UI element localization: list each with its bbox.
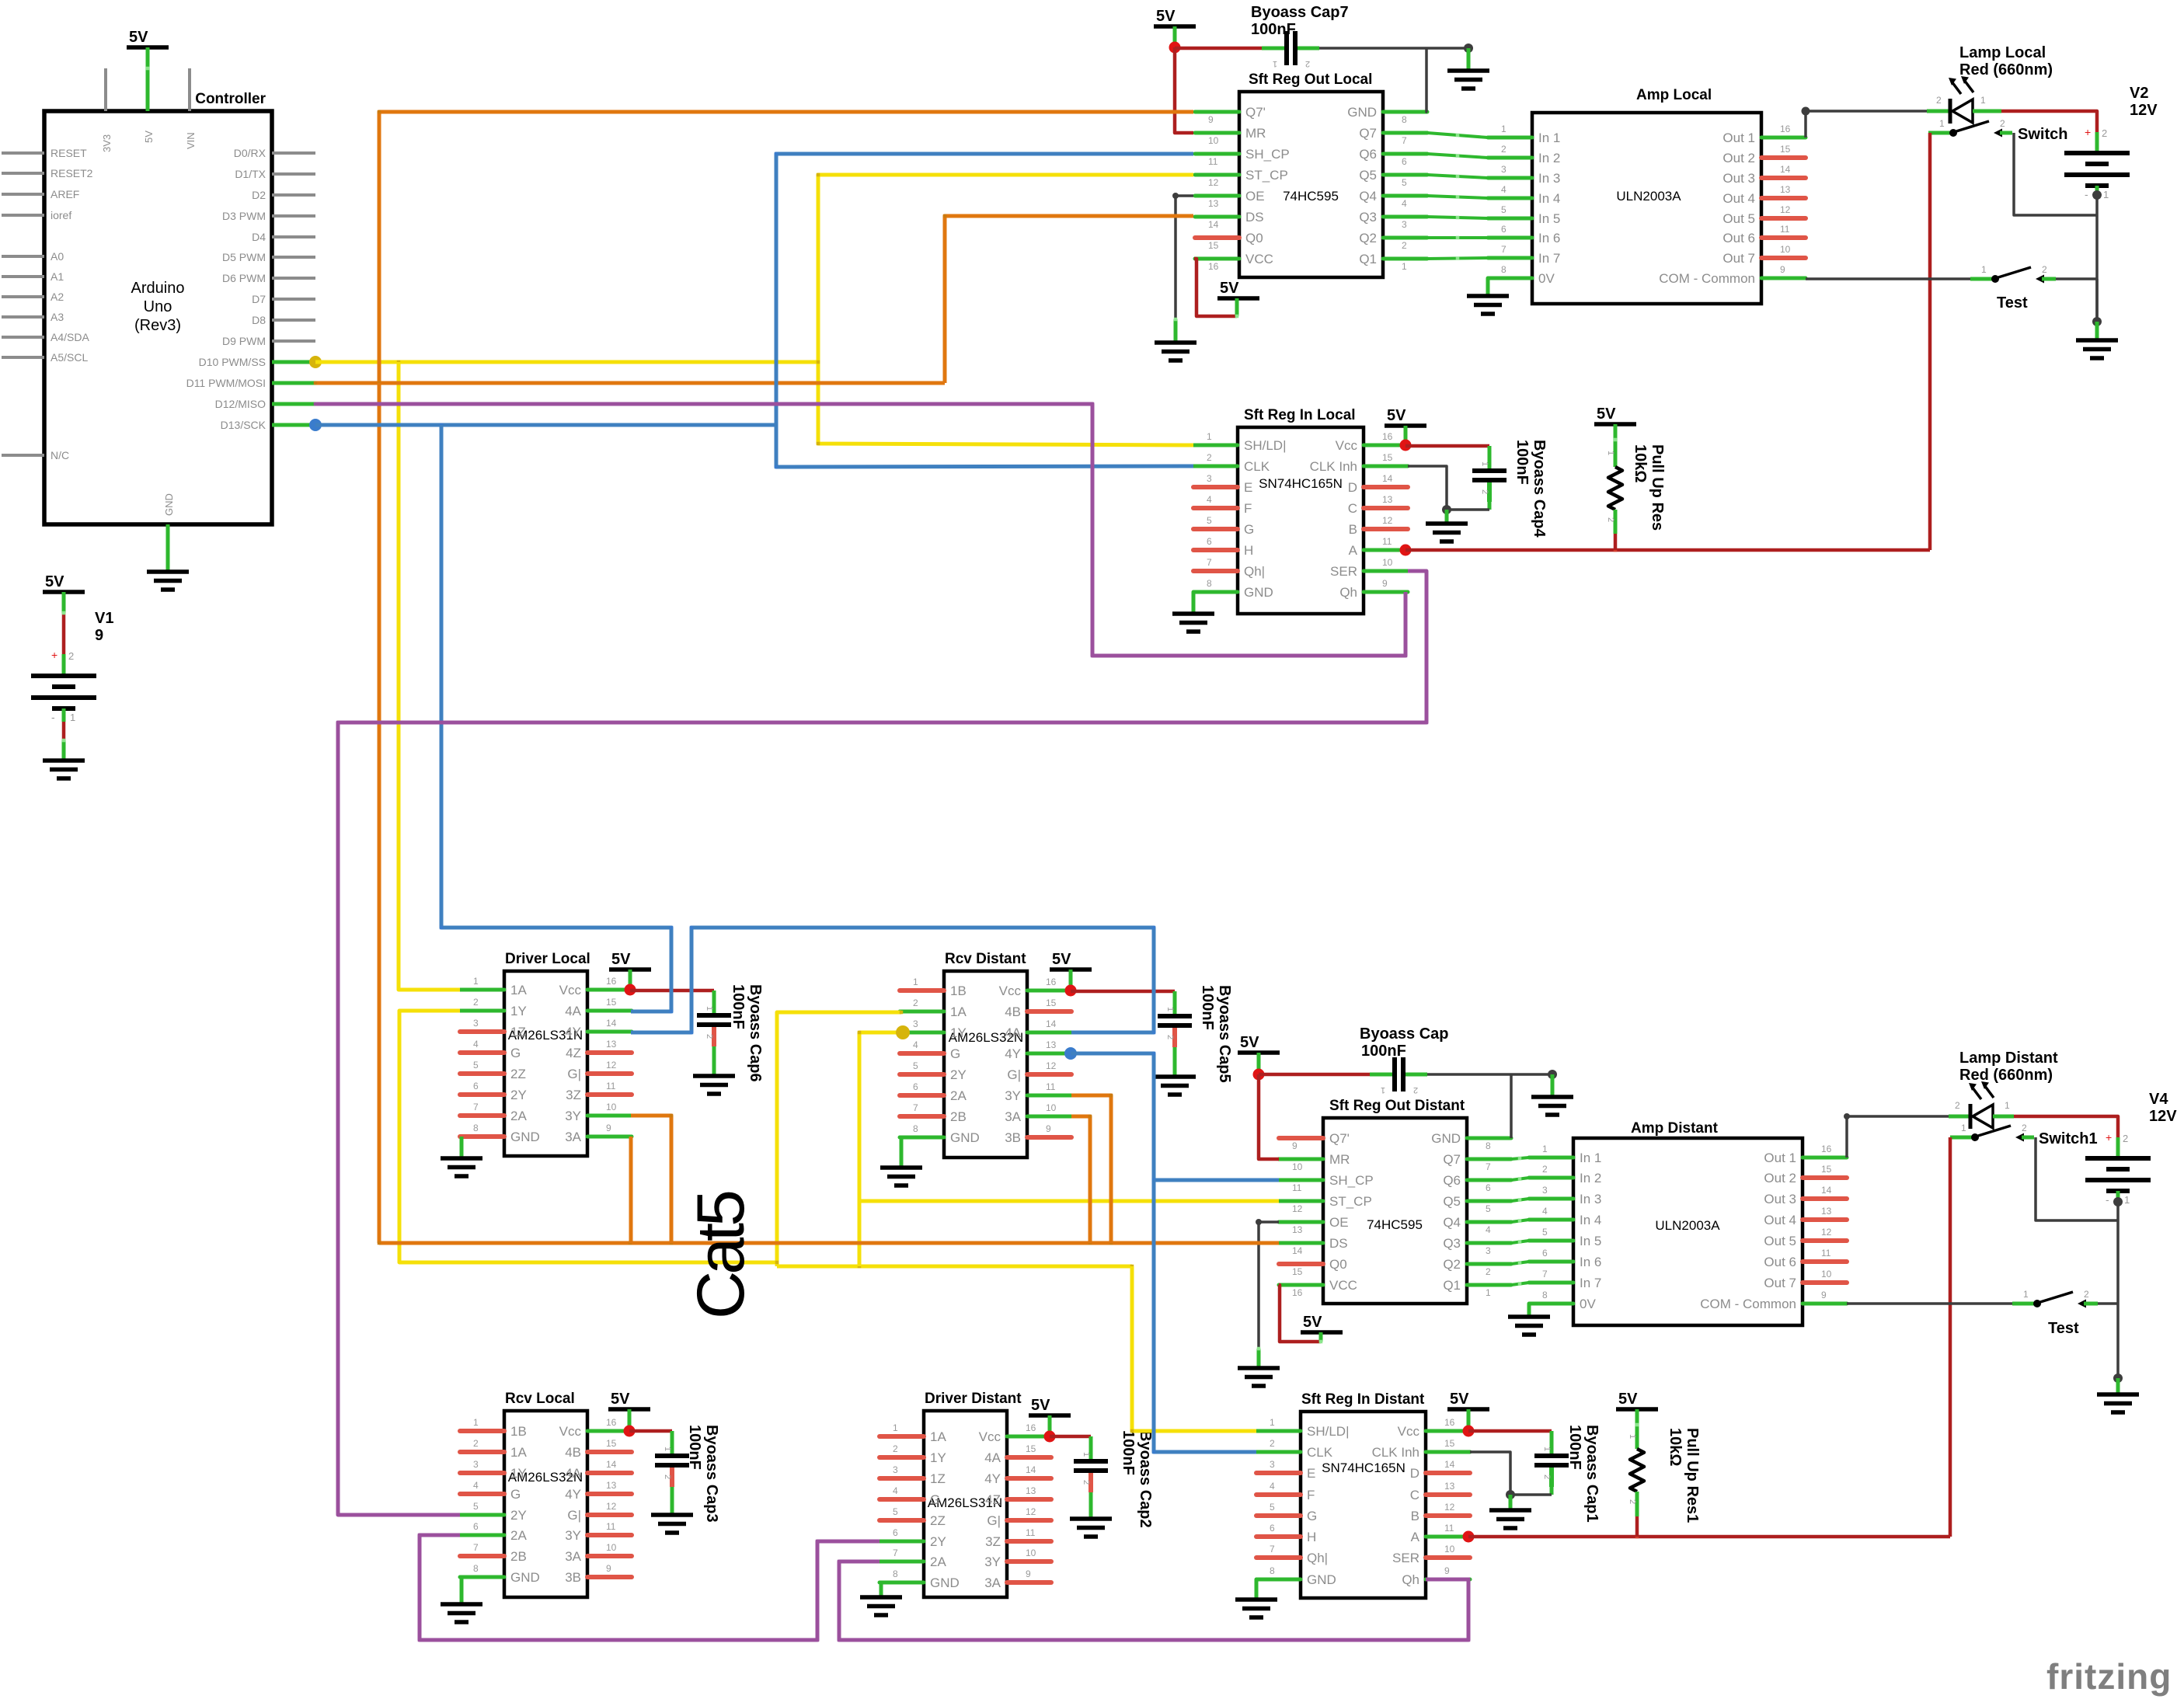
wire junction to ground (cap4) <box>1445 510 1449 524</box>
svg-text:Amp Local: Amp Local <box>1636 87 1712 103</box>
node rcv 1Y dot <box>896 1025 910 1039</box>
svg-text:16: 16 <box>1444 1417 1455 1428</box>
power 5V flag (595 distant VCC) <box>1301 1314 1343 1332</box>
svg-text:GND: GND <box>1347 105 1377 120</box>
svg-text:4A: 4A <box>984 1450 1001 1465</box>
wire VCC to 5V (595 local) <box>1194 259 1237 316</box>
wire blue to CLK local <box>776 425 1193 467</box>
svg-text:2Y: 2Y <box>930 1534 946 1549</box>
svg-text:Vcc: Vcc <box>979 1429 1001 1444</box>
ground (OE 595 local) <box>1155 343 1196 360</box>
svg-text:1: 1 <box>1480 461 1489 466</box>
svg-text:100nF: 100nF <box>730 984 747 1029</box>
capacitor C2 (Byoass Cap2 100nF) <box>1074 1440 1108 1492</box>
svg-text:3B: 3B <box>565 1570 581 1585</box>
svg-text:Sft Reg In Local: Sft Reg In Local <box>1244 407 1356 423</box>
svg-text:11: 11 <box>1026 1527 1036 1538</box>
pin V2 pin2 <box>2095 132 2099 153</box>
svg-text:Switch: Switch <box>2018 126 2067 143</box>
svg-text:Arduino: Arduino <box>131 280 185 297</box>
wire orange rcv 3A drop <box>1071 1116 1090 1243</box>
wire Vcc to cap6 <box>630 989 714 993</box>
svg-text:1: 1 <box>1273 59 1277 68</box>
svg-text:9: 9 <box>1208 114 1214 125</box>
svg-text:G|: G| <box>987 1513 1001 1528</box>
svg-text:In 5: In 5 <box>1580 1234 1601 1248</box>
svg-text:Out 2: Out 2 <box>1722 151 1755 165</box>
pin pullup 1 <box>1614 424 1618 467</box>
svg-text:4: 4 <box>1270 1481 1275 1492</box>
wire lamp to V4 + <box>2014 1116 2118 1137</box>
capacitor C6 (Byoass Cap6 100nF) <box>697 994 731 1046</box>
svg-text:2: 2 <box>1480 489 1489 494</box>
svg-text:2: 2 <box>1270 1438 1275 1449</box>
pin switch 1 <box>1928 131 1950 135</box>
wire gnd stub (cap7) <box>1467 48 1471 71</box>
svg-text:D: D <box>1410 1466 1419 1481</box>
IC Amp Local (ULN2003A) <box>1488 87 1806 304</box>
svg-text:Qh|: Qh| <box>1244 564 1265 579</box>
svg-text:Out 1: Out 1 <box>1764 1151 1796 1165</box>
node gnd junction (cap distant) <box>1548 1070 1557 1079</box>
wire 5V drop (595 distant) <box>1257 1053 1261 1074</box>
svg-text:14: 14 <box>1026 1464 1036 1475</box>
wire purple driver distant 2A to Qh distant <box>839 1561 1468 1640</box>
svg-text:Lamp Local: Lamp Local <box>1959 44 2046 61</box>
wire switch to V2 - <box>2014 133 2097 215</box>
wire blue to driver 4A <box>441 425 671 1011</box>
svg-text:OE: OE <box>1245 189 1265 204</box>
svg-text:100nF: 100nF <box>1513 440 1531 485</box>
svg-text:CLK Inh: CLK Inh <box>1310 459 1357 474</box>
wire Q3 to In 5 (distant) <box>1511 1241 1529 1243</box>
svg-text:ULN2003A: ULN2003A <box>1655 1218 1720 1233</box>
svg-text:Byoass Cap: Byoass Cap <box>1360 1025 1449 1043</box>
svg-text:Vcc: Vcc <box>1336 438 1358 453</box>
svg-text:Out 1: Out 1 <box>1722 131 1755 145</box>
svg-text:100nF: 100nF <box>1361 1043 1406 1060</box>
wire pullup to A net <box>1614 534 1618 550</box>
svg-text:10: 10 <box>1444 1544 1455 1555</box>
ground (0V Amp Distant) <box>1508 1317 1550 1335</box>
svg-text:Q0: Q0 <box>1245 231 1263 245</box>
svg-text:6: 6 <box>473 1521 479 1532</box>
wire cap7 to ground net <box>1319 47 1468 50</box>
svg-text:2: 2 <box>913 997 918 1008</box>
svg-text:13: 13 <box>1821 1206 1832 1217</box>
svg-text:G: G <box>1244 522 1254 537</box>
svg-text:10: 10 <box>1026 1548 1036 1558</box>
wire V4 - down <box>2116 1202 2120 1304</box>
svg-text:5V: 5V <box>1450 1391 1469 1408</box>
power 5V flag (595 local) <box>1154 8 1196 26</box>
svg-text:10kΩ: 10kΩ <box>1667 1428 1684 1466</box>
wire VCC to 5V (595 distant) <box>1279 1285 1321 1342</box>
svg-text:5V: 5V <box>1156 8 1176 25</box>
svg-text:13: 13 <box>606 1039 617 1050</box>
svg-text:2: 2 <box>1955 1100 1960 1111</box>
wire Q4 to In 4 (distant) <box>1511 1220 1529 1222</box>
svg-text:14: 14 <box>1292 1245 1303 1256</box>
wire yellow riser to rcv 1A <box>777 1012 901 1266</box>
wire cap to ground net (distant) <box>1427 1073 1552 1076</box>
svg-text:D5 PWM: D5 PWM <box>222 251 266 263</box>
wire switch1-pin1 to A net (red vertical) <box>1928 133 1932 550</box>
power 5V flag (rcv distant) <box>1050 951 1092 970</box>
svg-text:C: C <box>1348 501 1357 516</box>
wire DRVL GND to ground <box>460 1137 464 1158</box>
pin V4 pin1 <box>2116 1191 2120 1202</box>
svg-text:D2: D2 <box>252 189 266 201</box>
svg-text:GND: GND <box>163 493 175 516</box>
svg-text:5V: 5V <box>1618 1391 1638 1408</box>
svg-text:4A: 4A <box>1005 1025 1021 1040</box>
svg-text:2: 2 <box>2022 1123 2027 1133</box>
svg-text:In 1: In 1 <box>1538 131 1560 145</box>
svg-text:11: 11 <box>1382 536 1392 547</box>
svg-text:3: 3 <box>1542 1185 1548 1196</box>
svg-text:11: 11 <box>1780 224 1790 235</box>
wire purple rcv local 2A to driver distant 2Y <box>420 1535 880 1640</box>
svg-text:G: G <box>510 1046 521 1060</box>
svg-text:2: 2 <box>1165 1035 1175 1039</box>
svg-text:16: 16 <box>1208 261 1219 272</box>
svg-text:1Y: 1Y <box>510 1466 527 1481</box>
svg-text:5V: 5V <box>611 951 631 968</box>
svg-text:Q2: Q2 <box>1359 231 1377 245</box>
svg-text:15: 15 <box>1046 997 1057 1008</box>
svg-text:Controller: Controller <box>195 91 266 107</box>
svg-text:MR: MR <box>1245 126 1266 141</box>
pin test distant 2 <box>2084 1302 2098 1306</box>
svg-text:16: 16 <box>1821 1144 1832 1154</box>
ground (cap7) <box>1447 71 1489 89</box>
svg-text:DS: DS <box>1245 210 1264 225</box>
svg-text:2Y: 2Y <box>510 1088 527 1102</box>
svg-text:1: 1 <box>1486 1287 1491 1298</box>
svg-text:10: 10 <box>1821 1269 1832 1279</box>
pin V2 pin1 <box>2095 186 2099 195</box>
svg-text:Lamp Distant: Lamp Distant <box>1959 1050 2058 1067</box>
ground (V1) <box>43 761 85 778</box>
wire OE to ground (595 distant) <box>1259 1222 1279 1349</box>
wire yellow to ST_CP distant <box>859 1199 1279 1203</box>
wire 165D GND to ground <box>1255 1579 1259 1600</box>
svg-text:D4: D4 <box>252 231 266 243</box>
svg-text:1: 1 <box>1628 1434 1637 1439</box>
svg-text:1: 1 <box>473 976 479 987</box>
svg-text:11: 11 <box>1046 1081 1056 1092</box>
capacitor C3 (Byoass Cap3 100nF) <box>655 1434 689 1487</box>
wire Q5 to In 3 (distant) <box>1511 1199 1529 1201</box>
wire switch1-pin1 to A net (red vertical distant) <box>1949 1137 1952 1537</box>
wire V1 + to 5V <box>62 592 66 613</box>
svg-text:Cat5: Cat5 <box>684 1189 758 1319</box>
svg-text:4: 4 <box>1207 494 1212 505</box>
svg-text:7: 7 <box>473 1102 479 1112</box>
svg-text:1: 1 <box>1270 1417 1275 1428</box>
svg-text:In 3: In 3 <box>1580 1192 1601 1206</box>
svg-text:9: 9 <box>1444 1565 1450 1576</box>
svg-text:7: 7 <box>1270 1544 1275 1555</box>
wire OE to ground (595 local) <box>1176 196 1193 319</box>
node A junction (165 distant) <box>1463 1531 1475 1543</box>
svg-text:10: 10 <box>1382 557 1393 568</box>
svg-text:2: 2 <box>1305 59 1310 68</box>
svg-text:-: - <box>2085 188 2088 200</box>
svg-text:5: 5 <box>1402 177 1407 188</box>
svg-text:10kΩ: 10kΩ <box>1632 444 1649 482</box>
svg-text:H: H <box>1307 1530 1316 1544</box>
svg-text:G|: G| <box>1007 1067 1021 1082</box>
svg-text:0V: 0V <box>1538 271 1555 286</box>
svg-text:2: 2 <box>2084 1289 2089 1300</box>
svg-text:7: 7 <box>1486 1161 1491 1172</box>
wire 5V to Vcc (driver distant) <box>1048 1415 1052 1436</box>
svg-text:In 6: In 6 <box>1538 231 1560 245</box>
node V4 - node <box>2113 1197 2123 1206</box>
svg-text:Test: Test <box>1997 294 2028 312</box>
wire yellow D10 main <box>315 360 818 364</box>
svg-text:Out 7: Out 7 <box>1722 251 1755 266</box>
svg-text:16: 16 <box>606 976 617 987</box>
svg-text:9: 9 <box>606 1563 611 1574</box>
svg-text:2Z: 2Z <box>930 1513 946 1528</box>
svg-text:3Y: 3Y <box>984 1555 1001 1569</box>
svg-text:Qh|: Qh| <box>1307 1551 1328 1565</box>
svg-text:GND: GND <box>510 1130 540 1144</box>
svg-text:SN74HC165N: SN74HC165N <box>1259 476 1343 491</box>
svg-text:8: 8 <box>1486 1140 1491 1151</box>
svg-text:14: 14 <box>1208 219 1219 230</box>
svg-text:ioref: ioref <box>51 209 71 221</box>
svg-text:GND: GND <box>510 1570 540 1585</box>
wire cap6 to ground <box>712 1046 716 1076</box>
svg-text:13: 13 <box>1208 198 1219 209</box>
svg-text:100nF: 100nF <box>1120 1430 1137 1475</box>
svg-text:1: 1 <box>1939 118 1945 129</box>
svg-text:G: G <box>930 1492 940 1507</box>
svg-text:D10 PWM/SS: D10 PWM/SS <box>199 356 266 368</box>
svg-text:D13/SCK: D13/SCK <box>221 419 266 431</box>
svg-text:9: 9 <box>1026 1568 1031 1579</box>
svg-text:3A: 3A <box>984 1575 1001 1590</box>
wire Vcc to cap3 <box>629 1429 672 1433</box>
svg-text:9: 9 <box>1292 1140 1298 1151</box>
svg-text:10: 10 <box>606 1102 617 1112</box>
svg-text:In 4: In 4 <box>1580 1213 1601 1227</box>
svg-text:15: 15 <box>1444 1438 1455 1449</box>
svg-text:Q6: Q6 <box>1359 147 1377 162</box>
wire 5V to cap distant <box>1259 1073 1371 1077</box>
wire Q3 to In 5 <box>1427 217 1488 218</box>
svg-text:SH/LD|: SH/LD| <box>1244 438 1287 453</box>
svg-text:Q3: Q3 <box>1359 210 1377 225</box>
svg-text:AREF: AREF <box>51 188 79 200</box>
svg-text:2: 2 <box>705 1034 714 1039</box>
svg-text:100nF: 100nF <box>1199 985 1216 1030</box>
power 5V flag (V1) <box>43 573 85 592</box>
capacitor C7 (Byoass Cap7 100nF) <box>1262 31 1319 68</box>
pin lamp local 1 <box>1973 110 2001 113</box>
svg-text:-: - <box>2106 1193 2109 1206</box>
wire Vcc to cap5 <box>1071 990 1175 994</box>
svg-text:Vcc: Vcc <box>559 1424 582 1439</box>
svg-text:A4/SDA: A4/SDA <box>51 331 89 343</box>
svg-text:5: 5 <box>913 1060 918 1071</box>
svg-text:1A: 1A <box>950 1004 967 1019</box>
pin V4 pin2 <box>2116 1137 2120 1158</box>
svg-text:Vcc: Vcc <box>559 983 582 997</box>
svg-text:1: 1 <box>1981 264 1987 275</box>
wire orange to Q7' local <box>379 112 1193 383</box>
pin V1 pin1 <box>62 708 66 722</box>
svg-text:H: H <box>1244 543 1253 558</box>
svg-text:MR: MR <box>1329 1152 1350 1167</box>
svg-text:Pull Up Res: Pull Up Res <box>1649 444 1666 531</box>
IC Amp Distant (ULN2003A) <box>1529 1120 1847 1325</box>
svg-text:G|: G| <box>567 1067 581 1081</box>
svg-text:2: 2 <box>1082 1480 1091 1485</box>
svg-text:Q6: Q6 <box>1443 1173 1461 1188</box>
svg-text:12: 12 <box>606 1501 617 1512</box>
svg-text:2Y: 2Y <box>510 1508 527 1523</box>
svg-text:Q2: Q2 <box>1443 1257 1461 1272</box>
svg-text:8: 8 <box>1542 1290 1548 1300</box>
svg-text:1B: 1B <box>510 1424 527 1439</box>
wire test to V2 - <box>2056 277 2097 280</box>
svg-text:3: 3 <box>893 1464 898 1475</box>
svg-text:Amp Distant: Amp Distant <box>1631 1120 1719 1137</box>
wire yellow to SH/LD distant <box>1132 1266 1256 1431</box>
svg-text:8: 8 <box>473 1563 479 1574</box>
svg-text:Test: Test <box>2048 1320 2079 1337</box>
wire Q6 to In 2 (distant) <box>1511 1178 1529 1180</box>
svg-text:4: 4 <box>893 1485 898 1496</box>
svg-text:D7: D7 <box>252 293 266 305</box>
resistor R2 (Pull Up Res1 10k) <box>1630 1449 1644 1492</box>
svg-text:2A: 2A <box>510 1528 527 1543</box>
svg-text:12: 12 <box>1382 515 1393 526</box>
wire test to V4 - <box>2098 1302 2118 1305</box>
svg-text:15: 15 <box>606 1438 617 1449</box>
pin switch1 2 <box>2022 1136 2034 1140</box>
svg-text:5: 5 <box>1542 1227 1548 1238</box>
node D10 dot <box>309 356 322 368</box>
svg-text:COM - Common: COM - Common <box>1659 271 1755 286</box>
svg-text:1: 1 <box>893 1422 898 1433</box>
svg-text:ST_CP: ST_CP <box>1329 1194 1372 1209</box>
svg-text:Q1: Q1 <box>1359 252 1377 266</box>
wire Q6 to In 2 <box>1427 154 1488 158</box>
svg-text:Byoass Cap6: Byoass Cap6 <box>747 984 764 1082</box>
svg-text:1: 1 <box>1165 1007 1175 1011</box>
svg-text:Q4: Q4 <box>1359 189 1377 204</box>
svg-text:9: 9 <box>1821 1290 1827 1300</box>
svg-text:9: 9 <box>1780 264 1785 275</box>
wire yellow to SH/LD local <box>818 362 1193 445</box>
svg-text:5V: 5V <box>1387 407 1406 424</box>
node yellow bends <box>817 173 820 177</box>
svg-text:+: + <box>2085 126 2091 138</box>
svg-text:1A: 1A <box>510 1445 527 1460</box>
svg-text:D6 PWM: D6 PWM <box>222 272 266 284</box>
wire cap4 to gnd junction <box>1488 502 1492 510</box>
svg-text:4: 4 <box>473 1480 479 1491</box>
svg-text:1: 1 <box>705 1006 714 1011</box>
pin pullup1 1 <box>1635 1409 1639 1449</box>
node D13 dot <box>309 419 322 431</box>
svg-text:D: D <box>1348 480 1357 495</box>
pin test distant 1 <box>2012 1302 2034 1306</box>
svg-text:G: G <box>1307 1509 1317 1523</box>
svg-text:2: 2 <box>2123 1133 2128 1144</box>
svg-text:3: 3 <box>1486 1245 1491 1256</box>
svg-text:11: 11 <box>1444 1523 1454 1534</box>
svg-text:2: 2 <box>1501 144 1507 155</box>
svg-text:1Y: 1Y <box>510 1004 527 1018</box>
svg-text:1: 1 <box>2103 189 2109 200</box>
svg-text:N/C: N/C <box>51 449 69 461</box>
wire orange driver 3Y drop <box>631 1116 671 1243</box>
svg-text:5: 5 <box>473 1060 479 1071</box>
svg-text:In 2: In 2 <box>1580 1171 1601 1185</box>
svg-text:5V: 5V <box>45 573 64 590</box>
svg-text:VCC: VCC <box>1329 1278 1357 1293</box>
svg-text:1: 1 <box>913 977 918 987</box>
svg-text:8: 8 <box>1402 114 1407 125</box>
ground (V4) <box>2097 1394 2139 1412</box>
svg-text:4: 4 <box>1402 198 1407 209</box>
svg-text:13: 13 <box>606 1480 617 1491</box>
svg-text:(Rev3): (Rev3) <box>134 317 181 334</box>
svg-text:74HC595: 74HC595 <box>1283 189 1339 204</box>
svg-text:VIN: VIN <box>185 132 197 149</box>
ground (rcv local) <box>441 1604 482 1622</box>
power 5V flag (controller) <box>127 29 169 47</box>
svg-text:V4: V4 <box>2149 1091 2168 1108</box>
IC Rcv Distant (AM26LS32N) <box>900 951 1071 1158</box>
svg-text:9: 9 <box>606 1123 611 1133</box>
svg-text:2: 2 <box>1606 517 1615 522</box>
svg-text:16: 16 <box>1780 124 1791 134</box>
svg-text:Byoass Cap5: Byoass Cap5 <box>1216 985 1233 1083</box>
svg-text:SH_CP: SH_CP <box>1245 147 1290 162</box>
svg-text:10: 10 <box>606 1542 617 1553</box>
switch Switch1 (distant) <box>1961 1123 2098 1147</box>
wire orange DS distant run <box>379 1241 1279 1245</box>
wire cap5 to ground <box>1173 1047 1177 1077</box>
svg-text:A: A <box>1411 1530 1420 1544</box>
wire yellow to ST_CP local <box>818 175 1193 362</box>
svg-text:12: 12 <box>1026 1506 1036 1517</box>
node Vcc junction (rcv local) <box>624 1426 636 1437</box>
svg-text:1A: 1A <box>510 983 527 997</box>
svg-text:12V: 12V <box>2130 102 2158 119</box>
svg-text:ST_CP: ST_CP <box>1245 168 1288 183</box>
svg-text:COM - Common: COM - Common <box>1700 1297 1796 1311</box>
svg-text:3A: 3A <box>1005 1109 1021 1124</box>
svg-text:5V: 5V <box>1031 1397 1050 1414</box>
ground (cap distant) <box>1531 1097 1573 1115</box>
svg-text:3: 3 <box>473 1459 479 1470</box>
svg-text:5: 5 <box>1486 1203 1491 1214</box>
svg-text:2: 2 <box>1936 95 1942 106</box>
svg-text:VCC: VCC <box>1245 252 1273 266</box>
svg-text:11: 11 <box>1292 1182 1302 1193</box>
ground (rcv distant) <box>880 1168 922 1185</box>
svg-text:In 1: In 1 <box>1580 1151 1601 1165</box>
